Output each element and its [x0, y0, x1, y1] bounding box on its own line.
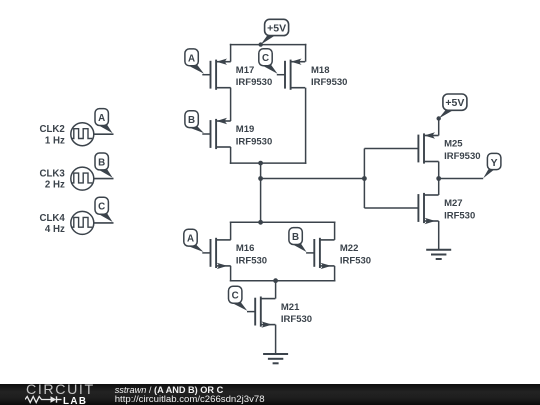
svg-text:M19: M19 [236, 124, 254, 135]
svg-text:A: A [187, 234, 194, 245]
node flag A at M17 gate [185, 49, 204, 74]
wire gate of M27 [364, 207, 418, 209]
wire from CLK2 to node A [94, 133, 114, 135]
svg-text:C: C [98, 202, 105, 213]
wire gate lead M21 [247, 311, 255, 313]
diode [51, 396, 57, 402]
svg-text:A: A [98, 113, 105, 124]
node flag B at M19 gate [185, 111, 204, 133]
svg-text:+5V: +5V [267, 22, 286, 34]
node junction on PMOS bottom rail [258, 161, 263, 166]
node flag C at M21 gate [229, 286, 248, 311]
transistor M17 PMOS IRF9530 [211, 59, 273, 90]
svg-text:C: C [262, 53, 269, 64]
transistor M22 NMOS IRF530 [314, 238, 371, 269]
wire mid node to gate bridge [261, 178, 365, 180]
svg-text:B: B [98, 157, 105, 168]
node junction mid [258, 176, 263, 181]
wire +5V top rail [230, 44, 307, 46]
ground under M27 [426, 250, 451, 259]
wire M22 source to bottom rail [334, 266, 336, 282]
svg-text:CLK3: CLK3 [39, 169, 65, 180]
svg-text:M21: M21 [281, 302, 300, 313]
wire rail to mid node [260, 163, 262, 178]
wire gate lead M19 [202, 133, 210, 135]
svg-text:M17: M17 [236, 65, 254, 76]
svg-text:CLK4: CLK4 [39, 213, 65, 224]
wire from CLK4 to node C [94, 222, 114, 224]
power flag +5V right [437, 94, 467, 121]
wire M21 source to ground [275, 325, 277, 354]
transistor M18 PMOS IRF9530 [285, 59, 347, 90]
svg-text:IRF9530: IRF9530 [236, 136, 272, 147]
svg-text:2 Hz: 2 Hz [45, 180, 65, 191]
wire M27 source to ground [438, 221, 440, 250]
wire M17 source to M19 drain [230, 88, 232, 121]
wire gate of M25 [364, 148, 418, 150]
wire +5V to M25 drain [438, 119, 440, 136]
node flag B on CLK3 [95, 153, 113, 178]
svg-text:M27: M27 [444, 198, 462, 209]
svg-text:B: B [188, 115, 195, 126]
node junction on NMOS bottom rail [273, 278, 278, 283]
svg-text:M18: M18 [311, 65, 329, 76]
ground under M21 [263, 354, 288, 363]
transistor M25 PMOS IRF9530 [418, 132, 480, 163]
node junction output [436, 176, 441, 181]
svg-text:1 Hz: 1 Hz [45, 135, 65, 146]
svg-text:CLK2: CLK2 [39, 124, 64, 135]
svg-text:M22: M22 [340, 243, 358, 254]
transistor M21 NMOS IRF530 [255, 297, 312, 328]
wire output to Y flag [439, 178, 484, 180]
node junction gate bridge [362, 176, 367, 181]
transistor M19 PMOS IRF9530 [211, 118, 273, 149]
footer bar [0, 384, 540, 405]
clock source CLK3 2 Hz [71, 167, 94, 190]
svg-text:M25: M25 [444, 139, 463, 150]
svg-text:IRF530: IRF530 [236, 255, 267, 266]
svg-text:IRF530: IRF530 [340, 255, 371, 266]
svg-text:IRF9530: IRF9530 [311, 77, 347, 88]
wire gate lead M16 [202, 252, 210, 254]
node flag C on CLK4 [95, 197, 113, 222]
CircuitLab logo [26, 382, 95, 398]
wire gate lead M17 [202, 74, 210, 76]
wire NMOS bottom rail [230, 280, 336, 282]
wire NMOS top rail [230, 221, 336, 223]
svg-text:4 Hz: 4 Hz [45, 224, 65, 235]
node flag A on CLK2 [95, 109, 113, 134]
wire M19 source to PMOS bottom rail [230, 147, 232, 164]
transistor M27 NMOS IRF530 [418, 193, 475, 224]
resistor zigzag [25, 397, 51, 403]
svg-text:B: B [292, 232, 299, 243]
clock source CLK4 4 Hz [71, 211, 94, 234]
power flag +5V top [259, 19, 289, 47]
wire gate lead M22 [306, 252, 314, 254]
svg-text:C: C [232, 291, 239, 302]
wire M17 drain to rail [230, 44, 232, 62]
node flag A at M16 gate [184, 229, 204, 252]
wire output node to M27 drain [438, 179, 440, 196]
node junction on NMOS top rail [258, 220, 263, 225]
wire M22 drain to rail [334, 222, 336, 240]
wire M21 drain to bottom rail [275, 281, 277, 299]
wire M18 drain to rail [305, 44, 307, 62]
svg-text:A: A [188, 53, 195, 64]
svg-text:M16: M16 [236, 243, 254, 254]
wire PMOS bottom rail [230, 162, 307, 164]
output flag Y [483, 153, 501, 178]
svg-text:IRF9530: IRF9530 [444, 151, 480, 162]
transistor M16 NMOS IRF530 [211, 238, 268, 269]
wire gate bridge vertical [363, 149, 365, 209]
svg-text:Y: Y [491, 158, 498, 169]
wire M16 source to bottom rail [230, 266, 232, 282]
wire gate lead M18 [277, 74, 285, 76]
clock source CLK2 1 Hz [71, 123, 94, 146]
wire M18 source down to rail [305, 88, 307, 164]
node flag C at M18 gate [259, 49, 278, 74]
svg-text:IRF9530: IRF9530 [236, 77, 272, 88]
svg-text:+5V: +5V [445, 97, 464, 109]
wire mid node down to NMOS rail [260, 179, 262, 223]
wire M25 source to output node [438, 162, 440, 179]
svg-text:IRF530: IRF530 [444, 210, 475, 221]
wire from CLK3 to node B [94, 178, 114, 180]
node flag B at M22 gate [289, 228, 307, 252]
svg-text:IRF530: IRF530 [281, 314, 312, 325]
wire M16 drain to rail [230, 222, 232, 240]
